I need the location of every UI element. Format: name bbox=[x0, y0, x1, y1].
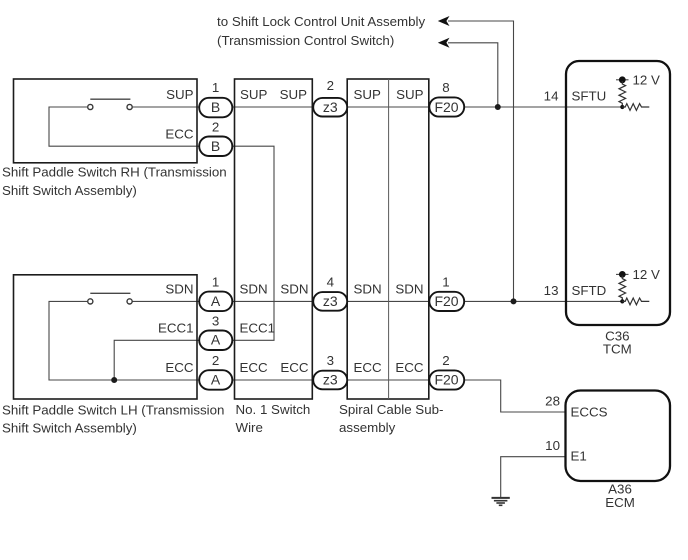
ECU box: ECM A36 bbox=[566, 391, 671, 482]
wire LH ECC1 branch from A3 down to ECC junction bbox=[114, 340, 199, 380]
svg-text:Spiral Cable Sub-: Spiral Cable Sub- bbox=[339, 402, 443, 417]
connector oval F20 pin8 bbox=[429, 97, 464, 116]
connector oval F20 pin2 bbox=[429, 370, 464, 389]
svg-text:to Shift Lock Control Unit Ass: to Shift Lock Control Unit Assembly bbox=[217, 14, 425, 29]
svg-text:E1: E1 bbox=[571, 449, 587, 464]
connector oval B pin1 bbox=[199, 98, 232, 118]
svg-text:SUP: SUP bbox=[354, 87, 382, 102]
wire ECC row LH (A2 through boxes to F20) bbox=[232, 379, 429, 381]
svg-text:A: A bbox=[211, 293, 221, 309]
wire LH switch right contact to A1 bbox=[132, 300, 199, 302]
svg-text:B: B bbox=[211, 138, 220, 154]
ECU box: TCM C36 bbox=[566, 61, 670, 325]
connector oval z3 pin2 bbox=[313, 98, 347, 117]
svg-text:28: 28 bbox=[545, 393, 560, 408]
svg-text:2: 2 bbox=[212, 353, 219, 368]
svg-text:ECM: ECM bbox=[605, 495, 635, 510]
svg-text:ECC1: ECC1 bbox=[158, 321, 194, 336]
svg-text:ECC1: ECC1 bbox=[240, 321, 276, 336]
svg-text:ECC: ECC bbox=[240, 360, 269, 375]
svg-text:No. 1 Switch: No. 1 Switch bbox=[236, 402, 311, 417]
svg-text:Shift Switch Assembly): Shift Switch Assembly) bbox=[2, 421, 137, 436]
wire RH switch left contact to ECC row to B2 bbox=[49, 107, 199, 146]
svg-text:3: 3 bbox=[327, 353, 334, 368]
divider line inside Spiral Cable box bbox=[388, 79, 390, 399]
connector oval F20 pin1 bbox=[429, 292, 464, 311]
svg-text:14: 14 bbox=[544, 88, 559, 103]
svg-text:B: B bbox=[211, 99, 220, 115]
svg-text:10: 10 bbox=[545, 438, 560, 453]
svg-text:12 V: 12 V bbox=[633, 267, 661, 282]
node dot SFTD bbox=[620, 299, 624, 303]
connector box: Spiral Cable Sub-assembly bbox=[347, 79, 429, 399]
resistor horizontal (SFTU series) bbox=[622, 104, 649, 111]
wire F20 pin2 to ECM pin ECCS bbox=[464, 380, 565, 412]
ground symbol (E1) bbox=[492, 498, 510, 505]
svg-text:SUP: SUP bbox=[396, 87, 424, 102]
svg-text:ECC: ECC bbox=[395, 360, 424, 375]
svg-text:SUP: SUP bbox=[166, 87, 194, 102]
svg-text:z3: z3 bbox=[323, 293, 338, 309]
svg-text:F20: F20 bbox=[434, 99, 458, 115]
svg-text:TCM: TCM bbox=[603, 342, 632, 357]
junction dot SUP/arrow2 bbox=[495, 104, 501, 110]
svg-text:2: 2 bbox=[442, 353, 449, 368]
wire RH switch right contact to B1 bbox=[132, 106, 199, 108]
svg-text:ECCS: ECCS bbox=[571, 404, 608, 419]
svg-text:ECC: ECC bbox=[280, 360, 309, 375]
svg-text:1: 1 bbox=[212, 80, 219, 95]
svg-text:12 V: 12 V bbox=[633, 72, 661, 87]
connector oval A pin2 bbox=[199, 370, 232, 390]
svg-text:z3: z3 bbox=[323, 99, 338, 115]
svg-text:SDN: SDN bbox=[354, 281, 382, 296]
resistor vertical (SFTU pull-up) bbox=[619, 81, 626, 107]
svg-text:1: 1 bbox=[212, 275, 219, 290]
svg-text:ECC: ECC bbox=[165, 126, 194, 141]
svg-text:SFTU: SFTU bbox=[572, 88, 607, 103]
connector oval z3 pin4 bbox=[313, 292, 347, 311]
arrowhead 2 (to Shift Lock Control Unit) bbox=[438, 38, 450, 48]
svg-text:2: 2 bbox=[212, 119, 219, 134]
svg-text:SFTD: SFTD bbox=[572, 283, 607, 298]
svg-text:z3: z3 bbox=[323, 371, 338, 387]
connector oval A pin1 bbox=[199, 292, 232, 312]
wire SDN row (A1 to TCM internal node) bbox=[232, 300, 622, 302]
connector box: Shift Paddle Switch LH bbox=[14, 275, 198, 399]
svg-text:2: 2 bbox=[327, 78, 334, 93]
svg-text:F20: F20 bbox=[434, 371, 458, 387]
connector oval A pin3 bbox=[199, 331, 232, 351]
junction dot SDN/arrow1 bbox=[511, 298, 517, 304]
power symbol 12V (SFTU pull-up) bbox=[616, 76, 629, 83]
connector oval B pin2 bbox=[199, 137, 232, 157]
wire SUP row (B1 to TCM internal node) bbox=[232, 106, 622, 108]
svg-text:SUP: SUP bbox=[240, 87, 268, 102]
svg-text:Wire: Wire bbox=[236, 420, 263, 435]
connector box: No. 1 Switch Wire bbox=[235, 79, 313, 399]
wire RH ECC from B2 through No.1 box down to ECC1 row to A3 bbox=[232, 146, 274, 340]
svg-text:SDN: SDN bbox=[280, 281, 308, 296]
arrowhead 1 (to Shift Lock Control Unit) bbox=[438, 16, 450, 26]
svg-text:SUP: SUP bbox=[280, 87, 308, 102]
svg-text:F20: F20 bbox=[434, 293, 458, 309]
svg-text:3: 3 bbox=[212, 314, 219, 329]
resistor horizontal (SFTD series) bbox=[622, 298, 649, 305]
svg-text:SDN: SDN bbox=[395, 281, 423, 296]
connector box: Shift Paddle Switch RH bbox=[14, 79, 198, 163]
svg-text:1: 1 bbox=[442, 275, 449, 290]
wire arrow2 line to SUP row junction bbox=[448, 43, 498, 107]
svg-text:A: A bbox=[211, 371, 221, 387]
switch S-LH contact circles and bar bbox=[88, 293, 133, 304]
svg-text:assembly: assembly bbox=[339, 420, 396, 435]
svg-text:8: 8 bbox=[442, 80, 449, 95]
junction dot LH ECC/ECC1 bbox=[111, 377, 117, 383]
svg-text:ECC: ECC bbox=[165, 360, 194, 375]
svg-text:A: A bbox=[211, 332, 221, 348]
switch S-RH contact circles and bar bbox=[88, 99, 133, 109]
resistor vertical (SFTD pull-up) bbox=[619, 276, 626, 302]
svg-text:Shift Paddle Switch LH (Transm: Shift Paddle Switch LH (Transmission bbox=[2, 402, 224, 417]
svg-text:SDN: SDN bbox=[165, 281, 193, 296]
node dot SFTU bbox=[620, 105, 624, 109]
svg-text:SDN: SDN bbox=[240, 281, 268, 296]
svg-text:4: 4 bbox=[327, 275, 335, 290]
power symbol 12V (SFTD pull-up) bbox=[616, 271, 629, 278]
connector oval z3 pin3 bbox=[313, 371, 347, 390]
svg-text:Shift Switch Assembly): Shift Switch Assembly) bbox=[2, 183, 137, 198]
wire ECM pin E1 to ground bbox=[501, 457, 565, 498]
wire arrow1 line to SDN row junction bbox=[448, 21, 514, 301]
svg-text:13: 13 bbox=[544, 283, 559, 298]
svg-text:ECC: ECC bbox=[354, 360, 383, 375]
svg-text:Shift Paddle Switch RH (Transm: Shift Paddle Switch RH (Transmission bbox=[2, 165, 227, 180]
wire LH switch left contact to ECC row to A2 bbox=[49, 301, 199, 380]
svg-text:(Transmission Control Switch): (Transmission Control Switch) bbox=[217, 33, 394, 48]
